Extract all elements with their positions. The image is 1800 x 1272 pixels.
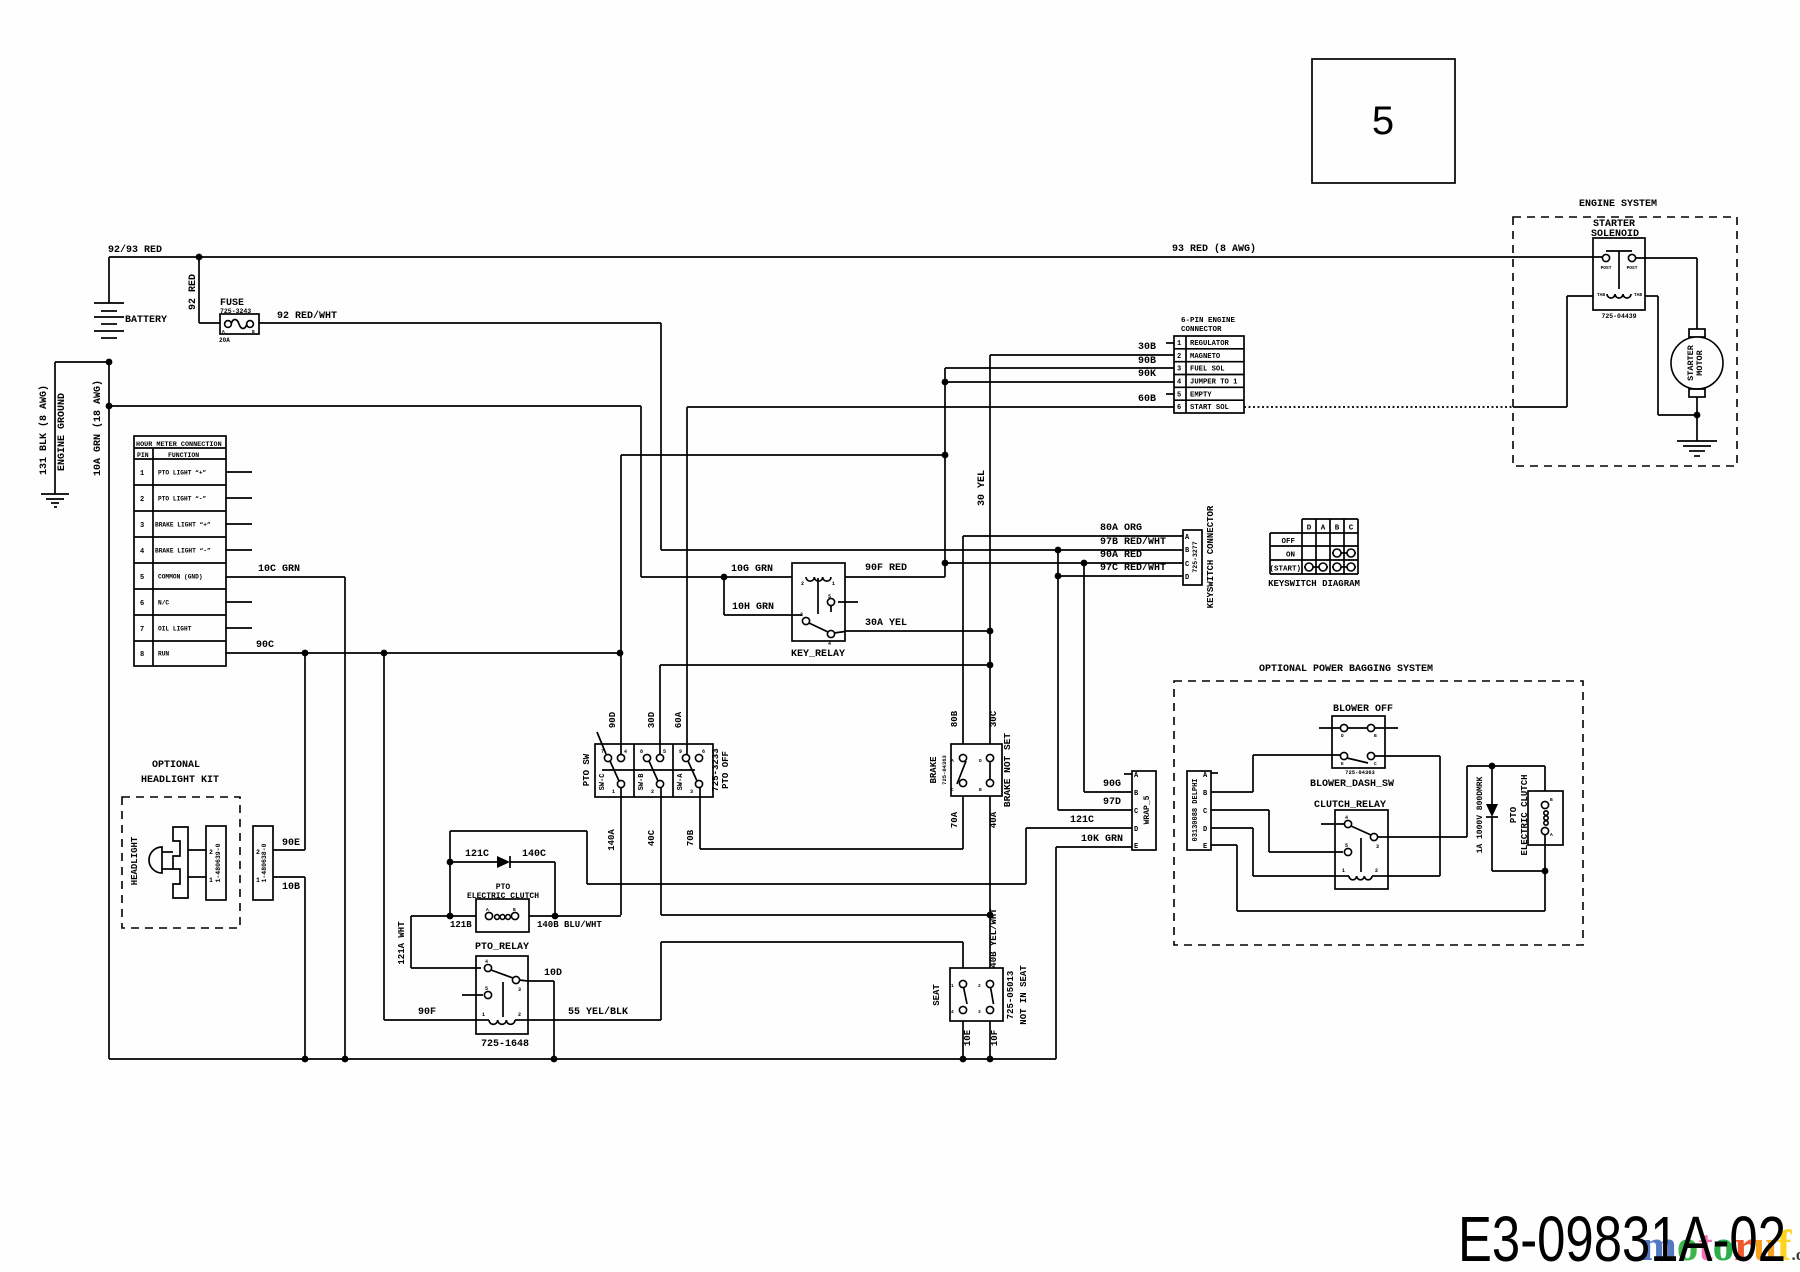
svg-text:C: C — [1185, 561, 1189, 569]
blower dash switch 725-04363 — [1310, 704, 1398, 790]
svg-text:4: 4 — [1177, 378, 1181, 386]
svg-text:55 YEL/BLK: 55 YEL/BLK — [568, 1006, 628, 1018]
svg-text:5: 5 — [485, 986, 488, 992]
fuse F1 725-3243 20A — [219, 298, 259, 344]
junction 90C branches — [302, 650, 624, 657]
6-pin connector unused stubs — [1166, 343, 1174, 394]
svg-text:10F: 10F — [990, 1030, 1000, 1046]
svg-text:2: 2 — [1177, 353, 1181, 361]
svg-text:1: 1 — [612, 789, 615, 795]
wire starter motor to ground — [1696, 397, 1698, 441]
svg-text:30C: 30C — [989, 710, 999, 727]
svg-text:140C: 140C — [522, 849, 546, 860]
svg-text:B: B — [1374, 733, 1377, 739]
wire 40A — [989, 796, 999, 968]
svg-text:10E: 10E — [963, 1029, 973, 1046]
wire 10B headlight ground — [273, 877, 305, 1059]
junction battery negative to ground — [106, 359, 113, 366]
junction 140B tap — [552, 913, 559, 920]
svg-text:4: 4 — [140, 548, 144, 556]
svg-text:D: D — [979, 758, 982, 764]
junction starter ground — [1694, 412, 1701, 419]
svg-text:D: D — [1185, 574, 1189, 582]
svg-text:4: 4 — [485, 959, 488, 965]
wire 10C GRN common ground from hour meter — [226, 564, 345, 1059]
svg-text:BRAKE LIGHT “-”: BRAKE LIGHT “-” — [155, 548, 211, 555]
svg-text:2: 2 — [801, 581, 804, 587]
junction 90A RED tap — [942, 560, 949, 567]
junction 90 link — [942, 452, 949, 459]
WRAP_5 connector — [1124, 771, 1156, 851]
svg-text:2: 2 — [651, 789, 654, 795]
svg-text:725-04439: 725-04439 — [1601, 313, 1636, 320]
connector 1-480639-0 — [206, 826, 226, 900]
svg-text:10D: 10D — [544, 968, 562, 979]
svg-text:90C: 90C — [256, 640, 274, 651]
hour meter connection table — [134, 436, 226, 666]
svg-text:10H GRN: 10H GRN — [732, 602, 774, 613]
svg-text:D: D — [1203, 826, 1207, 834]
svg-text:10A GRN (18 AWG): 10A GRN (18 AWG) — [92, 380, 104, 476]
svg-text:1: 1 — [951, 983, 954, 989]
svg-text:7: 7 — [140, 626, 144, 634]
svg-text:6: 6 — [1177, 404, 1181, 412]
svg-text:121C: 121C — [465, 849, 489, 860]
svg-text:A: A — [486, 907, 489, 913]
svg-text:1: 1 — [1342, 868, 1345, 874]
svg-text:ENGINE SYSTEM: ENGINE SYSTEM — [1579, 199, 1657, 210]
junction 90G tap — [1081, 560, 1088, 567]
wire 97 net link — [1057, 550, 1059, 576]
junction ground bus taps — [302, 1056, 994, 1063]
svg-text:40B YEL/WHT: 40B YEL/WHT — [989, 908, 999, 968]
svg-text:131 BLK (8 AWG): 131 BLK (8 AWG) — [38, 385, 50, 475]
svg-text:OFF: OFF — [1281, 538, 1295, 546]
svg-text:03130088 DELPHI: 03130088 DELPHI — [1192, 778, 1200, 841]
headlight plug — [173, 827, 206, 898]
svg-text:3: 3 — [518, 987, 521, 993]
svg-text:93 RED (8 AWG): 93 RED (8 AWG) — [1172, 243, 1256, 255]
svg-text:ON: ON — [1286, 552, 1295, 560]
junction diode bottom — [1542, 868, 1549, 875]
svg-text:2: 2 — [518, 1012, 521, 1018]
svg-text:30 YEL: 30 YEL — [977, 470, 988, 506]
svg-text:90D: 90D — [608, 711, 618, 728]
starter solenoid 725-04439 — [1591, 219, 1645, 320]
wire 10G GRN — [641, 564, 792, 577]
svg-text:725-1648: 725-1648 — [481, 1039, 529, 1050]
junction 10A GRN branch — [106, 403, 113, 410]
svg-text:B: B — [1335, 525, 1340, 533]
wire 10A GRN (18 AWG) battery negative drop — [92, 362, 109, 1059]
svg-text:140B BLU/WHT: 140B BLU/WHT — [537, 920, 602, 930]
wire 97C RED/WHT — [1058, 562, 1183, 576]
svg-text:1-480639-0: 1-480639-0 — [215, 843, 222, 882]
wire 30A YEL — [845, 618, 990, 631]
svg-text:N/C: N/C — [158, 600, 169, 607]
svg-text:121A WHT: 121A WHT — [397, 921, 407, 965]
ground engine ground symbol — [41, 494, 69, 507]
svg-text:4: 4 — [1345, 815, 1348, 821]
svg-text:5: 5 — [1177, 391, 1181, 399]
junction 30D tap — [987, 662, 994, 669]
wire 10A GRN to key relay — [109, 406, 641, 577]
svg-text:90G: 90G — [1103, 779, 1121, 790]
wire 30D — [647, 665, 990, 755]
wire 10E — [963, 1021, 973, 1059]
starter motor — [1671, 329, 1723, 397]
wire 70B — [686, 787, 963, 849]
wire 10K GRN bagging ground rail — [1211, 845, 1545, 911]
svg-text:70A: 70A — [950, 811, 960, 828]
svg-text:60B: 60B — [1138, 394, 1156, 405]
svg-text:97B RED/WHT: 97B RED/WHT — [1100, 536, 1166, 548]
wire 80B — [950, 710, 960, 727]
svg-text:90F: 90F — [418, 1007, 436, 1018]
wire 10K GRN — [1056, 834, 1132, 1059]
svg-text:2: 2 — [978, 983, 981, 989]
svg-text:EMPTY: EMPTY — [1190, 391, 1212, 399]
optional power bagging system dashed box — [1174, 664, 1583, 945]
keyswitch diagram table — [1268, 519, 1360, 589]
wire 93 RED (8 AWG) top rail — [109, 243, 1602, 257]
svg-text:9: 9 — [679, 749, 682, 755]
svg-text:BRAKE: BRAKE — [929, 756, 939, 784]
wire 92 RED fuse feed — [188, 257, 220, 323]
svg-text:PTO LIGHT “-”: PTO LIGHT “-” — [158, 496, 207, 503]
svg-text:6-PIN ENGINE: 6-PIN ENGINE — [1181, 317, 1236, 325]
svg-text:90F RED: 90F RED — [865, 563, 907, 574]
svg-text:REGULATOR: REGULATOR — [1190, 340, 1230, 348]
svg-text:PTO SW: PTO SW — [582, 753, 592, 786]
svg-text:4: 4 — [828, 641, 831, 647]
svg-text:3: 3 — [140, 522, 144, 530]
svg-text:5: 5 — [828, 594, 831, 600]
svg-text:OIL LIGHT: OIL LIGHT — [158, 626, 192, 633]
svg-text:HEADLIGHT KIT: HEADLIGHT KIT — [141, 775, 219, 786]
svg-text:MAGNETO: MAGNETO — [1190, 353, 1221, 361]
wire 90E headlight power — [273, 653, 305, 850]
wire 97B RED/WHT — [661, 536, 1183, 550]
svg-text:1: 1 — [140, 470, 144, 478]
svg-text:80A ORG: 80A ORG — [1100, 523, 1142, 534]
svg-text:92 RED: 92 RED — [188, 274, 199, 310]
wire starter solenoid right post to motor — [1636, 258, 1697, 329]
svg-text:PTO: PTO — [1509, 806, 1519, 823]
svg-text:(START): (START) — [1269, 566, 1301, 574]
wire starter solenoid right tab to ground — [1645, 296, 1697, 415]
junction 30A YEL tap — [987, 628, 994, 635]
wire 10D — [528, 968, 562, 1059]
svg-text:BLOWER OFF: BLOWER OFF — [1333, 704, 1393, 715]
svg-text:1-480638-0: 1-480638-0 — [261, 843, 268, 882]
battery BT1 — [94, 303, 167, 338]
svg-text:1A 1000V 800DMRK: 1A 1000V 800DMRK — [1476, 776, 1485, 853]
svg-text:97C RED/WHT: 97C RED/WHT — [1100, 562, 1166, 574]
svg-text:PTO LIGHT “+”: PTO LIGHT “+” — [158, 470, 207, 477]
svg-text:SW-A: SW-A — [677, 773, 685, 791]
svg-text:80B: 80B — [950, 710, 960, 727]
svg-text:8: 8 — [640, 749, 643, 755]
svg-text:PTO: PTO — [496, 883, 511, 892]
svg-text:TAB: TAB — [1634, 292, 1642, 298]
svg-text:JUMPER TO 1: JUMPER TO 1 — [1190, 378, 1238, 386]
svg-text:6: 6 — [702, 749, 705, 755]
svg-text:3: 3 — [1177, 366, 1181, 374]
wire 10 GRN ground bus — [109, 1058, 1056, 1060]
svg-text:30D: 30D — [647, 711, 657, 728]
svg-text:10K GRN: 10K GRN — [1081, 834, 1123, 845]
junction 97C tap — [1055, 573, 1062, 580]
wire 121 net loop — [450, 815, 1132, 915]
key relay — [791, 563, 858, 660]
wire 90C run from hour meter — [226, 640, 620, 653]
svg-text:RUN: RUN — [158, 651, 169, 658]
svg-text:C: C — [1134, 808, 1138, 816]
svg-text:10G GRN: 10G GRN — [731, 564, 773, 575]
wire 90 net link to PTO — [621, 454, 945, 456]
wire 121A WHT — [397, 916, 481, 968]
PTO electric clutch (bagging) — [1509, 774, 1563, 855]
keyswitch connector 725-3277 — [1183, 505, 1216, 608]
svg-text:725-05013: 725-05013 — [1006, 971, 1016, 1020]
svg-text:D: D — [1307, 525, 1312, 533]
svg-text:CONNECTOR: CONNECTOR — [1181, 326, 1222, 334]
svg-text:2: 2 — [209, 849, 213, 856]
svg-text:90B: 90B — [1138, 356, 1156, 367]
6-pin engine connector — [1174, 317, 1244, 413]
svg-text:2: 2 — [256, 849, 260, 856]
drawing number E3-09831A-02 — [1458, 1203, 1786, 1272]
wire 90A RED — [945, 550, 1183, 563]
svg-text:FUEL SOL: FUEL SOL — [1190, 366, 1225, 374]
svg-text:BRAKE NOT SET: BRAKE NOT SET — [1002, 733, 1013, 807]
svg-text:BRAKE LIGHT “+”: BRAKE LIGHT “+” — [155, 522, 211, 529]
seat switch 725-05013 — [932, 965, 1029, 1025]
headlight lamp — [130, 836, 173, 885]
svg-text:4: 4 — [951, 1009, 954, 1015]
junction top rail / fuse feed — [196, 254, 203, 261]
svg-text:C: C — [1374, 761, 1377, 767]
svg-text:NOT IN SEAT: NOT IN SEAT — [1019, 965, 1029, 1025]
svg-text:E: E — [1203, 843, 1207, 851]
svg-text:30A YEL: 30A YEL — [865, 618, 907, 629]
svg-text:725-04363: 725-04363 — [941, 754, 948, 784]
svg-text:20A: 20A — [219, 337, 230, 344]
svg-text:C: C — [951, 787, 954, 793]
wire engine ground branch 131 BLK (8 AWG) — [38, 362, 109, 494]
junction 121C diode tap — [447, 859, 454, 866]
svg-text:1: 1 — [482, 1012, 485, 1018]
wire 10F — [990, 1021, 1000, 1059]
svg-text:E: E — [1341, 761, 1344, 767]
svg-text:4: 4 — [624, 749, 627, 755]
wire 97D — [1058, 576, 1132, 810]
wire 90G — [1084, 563, 1132, 792]
svg-text:B: B — [979, 787, 982, 793]
PTO switch 725-3233 — [582, 732, 731, 797]
wire 30B — [990, 342, 1174, 355]
svg-text:KEY_RELAY: KEY_RELAY — [791, 649, 845, 660]
svg-text:OPTIONAL POWER BAGGING SYSTEM: OPTIONAL POWER BAGGING SYSTEM — [1259, 664, 1433, 675]
svg-text:121B: 121B — [450, 920, 472, 930]
svg-text:5: 5 — [1345, 843, 1348, 849]
junction 121B tap — [447, 913, 454, 920]
wire 55 YEL/BLK — [528, 942, 963, 1020]
svg-text:POST: POST — [1601, 265, 1612, 271]
diode D2 1A 1000V 800DMRK — [1476, 766, 1545, 871]
junction 90K tap — [942, 379, 949, 386]
junction 97B tap — [1055, 547, 1062, 554]
svg-text:10B: 10B — [282, 882, 300, 893]
svg-text:SW-C: SW-C — [599, 774, 607, 791]
page number box 5 — [1312, 59, 1455, 183]
svg-text:5: 5 — [1372, 99, 1394, 143]
svg-text:HOUR METER CONNECTION: HOUR METER CONNECTION — [136, 441, 222, 449]
svg-text:A: A — [951, 758, 954, 764]
svg-text:A: A — [1321, 525, 1326, 533]
wire 140B BLU/WHT — [529, 916, 621, 930]
svg-text:MOTOR: MOTOR — [1695, 349, 1705, 375]
svg-text:B: B — [513, 907, 516, 913]
PTO relay 725-1648 — [462, 942, 529, 1050]
svg-text:1: 1 — [256, 877, 260, 884]
connector 1-480638-0 — [253, 826, 273, 900]
svg-text:90K: 90K — [1138, 369, 1156, 380]
wire 60B — [687, 394, 1174, 407]
svg-text:TAB: TAB — [1597, 292, 1605, 298]
svg-text:B: B — [252, 329, 255, 335]
svg-text:E3-09831A-02: E3-09831A-02 — [1458, 1203, 1786, 1272]
hour meter unused pin stubs — [226, 472, 252, 628]
wire 90 net vertical — [944, 368, 946, 563]
brake switch 725-04363 — [929, 733, 1013, 807]
svg-text:70B: 70B — [686, 829, 696, 846]
svg-text:121C: 121C — [1070, 815, 1094, 826]
svg-text:B: B — [1550, 797, 1553, 803]
wire 90B — [945, 356, 1174, 368]
svg-text:60A: 60A — [674, 711, 684, 728]
PTO electric clutch — [467, 883, 539, 932]
svg-text:WRAP_5: WRAP_5 — [1143, 795, 1152, 824]
svg-text:HEADLIGHT: HEADLIGHT — [130, 836, 140, 885]
svg-text:90E: 90E — [282, 838, 300, 849]
svg-text:C: C — [1349, 525, 1354, 533]
svg-text:PIN: PIN — [137, 452, 149, 459]
svg-text:C: C — [1203, 808, 1207, 816]
svg-text:2: 2 — [140, 496, 144, 504]
wire 80A ORG — [963, 523, 1183, 744]
DELPHI connector 03130088 — [1187, 771, 1218, 851]
junction 10G/10H — [721, 574, 728, 581]
svg-text:3: 3 — [690, 789, 693, 795]
svg-text:BLOWER_DASH_SW: BLOWER_DASH_SW — [1310, 779, 1394, 790]
wire blower C to clutch relay coil 2 — [1375, 756, 1440, 876]
wire 90D — [608, 455, 621, 755]
svg-text:COMMON (GND): COMMON (GND) — [158, 574, 203, 581]
svg-text:1: 1 — [1177, 340, 1181, 348]
svg-text:140A: 140A — [607, 829, 617, 851]
svg-text:D: D — [1341, 733, 1344, 739]
svg-text:OPTIONAL: OPTIONAL — [152, 760, 200, 771]
wire 90G to blower — [1211, 755, 1340, 792]
svg-text:A: A — [222, 329, 225, 335]
svg-text:6: 6 — [140, 600, 144, 608]
wire 90F to PTO relay — [384, 653, 476, 1020]
ground starter motor ground symbol — [1677, 441, 1717, 456]
svg-text:40C: 40C — [647, 829, 657, 846]
wire clutch relay pin 3 to PTO clutch B — [1388, 766, 1545, 837]
wire 60B to starter solenoid — [1244, 296, 1593, 407]
svg-text:8: 8 — [140, 651, 144, 659]
svg-text:97D: 97D — [1103, 797, 1121, 808]
svg-text:SW-B: SW-B — [638, 773, 646, 791]
svg-text:725-04363: 725-04363 — [1345, 769, 1375, 776]
clutch relay — [1314, 800, 1388, 889]
svg-text:FUNCTION: FUNCTION — [168, 452, 199, 459]
svg-text:725-3277: 725-3277 — [1192, 541, 1199, 572]
wire 30C — [989, 710, 999, 727]
svg-text:40A: 40A — [989, 811, 999, 828]
wire 140A — [607, 787, 621, 915]
optional headlight kit dashed box — [122, 760, 240, 928]
svg-text:KEYSWITCH DIAGRAM: KEYSWITCH DIAGRAM — [1268, 579, 1360, 589]
svg-text:5: 5 — [140, 574, 144, 582]
svg-text:725-3233: 725-3233 — [711, 748, 721, 791]
svg-text:10C GRN: 10C GRN — [258, 564, 300, 575]
svg-text:30B: 30B — [1138, 342, 1156, 353]
svg-text:90A RED: 90A RED — [1100, 550, 1142, 561]
svg-text:3: 3 — [1376, 844, 1379, 850]
svg-text:SEAT: SEAT — [932, 984, 942, 1006]
watermark motoruf.de — [1641, 1223, 1800, 1270]
svg-text:PTO OFF: PTO OFF — [721, 751, 731, 789]
wire 92 RED/WHT fuse to key switch net — [259, 310, 661, 550]
svg-text:BATTERY: BATTERY — [125, 315, 167, 326]
svg-text:5: 5 — [663, 749, 666, 755]
wire 97D to clutch relay pin 5 — [1211, 810, 1343, 852]
svg-text:A: A — [1550, 832, 1553, 838]
wire 40C — [647, 787, 990, 915]
wire 90K — [945, 369, 1174, 382]
wire 92/93 RED battery positive to top rail — [108, 244, 162, 303]
svg-text:7: 7 — [601, 749, 604, 755]
wire 121B — [411, 916, 476, 930]
svg-text:PTO_RELAY: PTO_RELAY — [475, 942, 529, 953]
junction diode top — [1489, 763, 1496, 770]
wire 30 YEL vertical — [977, 355, 990, 744]
svg-text:D: D — [1134, 826, 1138, 834]
svg-text:2: 2 — [1375, 868, 1378, 874]
svg-text:1: 1 — [832, 581, 835, 587]
svg-text:1: 1 — [209, 877, 213, 884]
wire 90F RED — [845, 563, 945, 577]
wire 60A — [674, 407, 687, 755]
svg-text:ENGINE GROUND: ENGINE GROUND — [57, 393, 68, 471]
engine system dashed box — [1513, 199, 1737, 466]
svg-text:POST: POST — [1627, 265, 1638, 271]
wire 40B YEL/WHT — [989, 908, 999, 968]
wire 140C drop — [554, 862, 556, 915]
diode D1 121C/140C — [450, 849, 555, 868]
svg-text:KEYSWITCH CONNECTOR: KEYSWITCH CONNECTOR — [1206, 505, 1216, 608]
svg-text:92/93 RED: 92/93 RED — [108, 244, 162, 256]
svg-text:92 RED/WHT: 92 RED/WHT — [277, 310, 337, 322]
junction 40B — [987, 912, 994, 919]
svg-text:E: E — [1134, 843, 1138, 851]
svg-text:3: 3 — [978, 1009, 981, 1015]
wire 121C to clutch relay coil — [1211, 828, 1335, 876]
